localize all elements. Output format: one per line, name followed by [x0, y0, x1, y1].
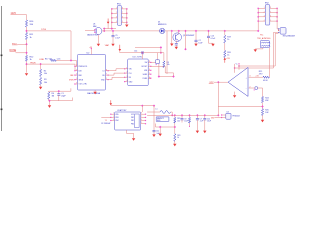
power arrow into rail: [119, 45, 121, 50]
ground tap on low rail: [159, 127, 161, 134]
resistor R4: [48, 92, 50, 99]
series element on minus input: [255, 87, 257, 90]
svg-text:C11: C11: [156, 130, 159, 132]
inductor L1: [160, 111, 171, 114]
capacitor C11: [153, 129, 156, 131]
U3 right pin PB1: [141, 120, 146, 122]
svg-text:R3: R3: [44, 79, 46, 81]
U2 left pin 2 PWRGOOD: [75, 65, 78, 67]
power arrow into U3 rail: [110, 100, 112, 104]
wire 12V_UNREG horizontal: [27, 30, 72, 32]
low rail wire: [156, 126, 175, 128]
junction cap C9 tap: [181, 114, 183, 116]
choke FL1 body: [260, 41, 269, 48]
capacitor C2: [195, 31, 197, 40]
ground below R25: [261, 120, 264, 123]
wire R22 bottom to low rail: [174, 123, 176, 134]
U1 right pin 6 VFB: [148, 69, 151, 71]
U6 ground stub: [97, 35, 99, 44]
U4 left pins: [222, 114, 226, 116]
resistor R9: [163, 53, 165, 61]
wire lower feedback run: [159, 76, 174, 78]
IC U1 body: [128, 59, 149, 86]
row1 wire to IC U2 pin: [56, 60, 76, 66]
ground RN1 right rail: [125, 25, 128, 28]
svg-text:U4: U4: [226, 112, 228, 114]
svg-text:12V0: 12V0: [41, 29, 47, 31]
U3 right pin PB0: [141, 123, 146, 125]
svg-text:D1: D1: [158, 22, 160, 24]
svg-text:R22: R22: [177, 118, 180, 120]
U1 right pin 5 SGND: [148, 73, 151, 75]
U3 left pin PB3: [111, 116, 115, 118]
U2 left pin 3 LBO: [75, 70, 78, 72]
output feedback junction: [217, 81, 219, 83]
wire low rail up to output rail: [155, 124, 157, 128]
svg-text:R21: R21: [259, 71, 262, 73]
svg-text:C9: C9: [184, 118, 186, 120]
svg-text:MBR0520: MBR0520: [158, 24, 166, 26]
gate pull wire with ground: [171, 31, 173, 44]
wire rail upper branch: [135, 47, 161, 52]
RN2 right rail: [276, 8, 278, 29]
svg-text:RN2: RN2: [265, 3, 269, 5]
U1 left pin 2 ITH: [125, 72, 128, 74]
svg-text:PGO: PGO: [12, 43, 17, 45]
op-amp power pin top: [234, 64, 236, 73]
choke left pin to ground: [255, 48, 263, 49]
svg-text:C13: C13: [211, 35, 214, 37]
sub rail wire y28.6: [104, 28, 116, 30]
minus input wire: [249, 87, 263, 89]
IC U3 body: [115, 112, 141, 130]
junction op-amp power a: [234, 67, 236, 69]
svg-text:10uF: 10uF: [207, 121, 211, 123]
svg-text:C7: C7: [200, 118, 202, 120]
diode D1: [160, 28, 165, 33]
svg-text:C1: C1: [61, 93, 63, 95]
junction main bus left end: [103, 30, 105, 32]
svg-text:C5: C5: [115, 35, 117, 37]
U1 right pin 7 BOOST: [148, 65, 151, 67]
junction small resistor tap: [188, 114, 190, 116]
ground divider: [49, 101, 51, 106]
junction low rail: [174, 126, 176, 128]
U1 left pin 3 FB: [125, 76, 128, 78]
junction at rail DONE: [25, 52, 27, 54]
wire from 12V0 label to R16: [17, 15, 27, 20]
wire bus to R19: [224, 31, 226, 35]
resistor R11: [25, 33, 27, 40]
svg-text:1M: 1M: [52, 95, 55, 97]
U3 top rail wire: [111, 105, 154, 107]
RN2 pin pair row: [258, 16, 265, 18]
row2 wire from rail to IC U2: [27, 64, 76, 71]
U1 right wire SW net: [151, 62, 159, 76]
SW1 second return wire: [239, 33, 278, 66]
capacitor C5 on bus: [112, 31, 114, 35]
resistor R26 small: [189, 115, 191, 117]
resistor R19: [224, 35, 226, 43]
wire down to row1 at x71: [70, 31, 72, 61]
junction rail to VPP node: [217, 114, 219, 116]
wire R25 to ground: [262, 115, 264, 119]
U1 right pin 8 SW: [148, 61, 151, 63]
svg-text:RN1: RN1: [117, 3, 121, 5]
svg-text:R25: R25: [265, 110, 268, 112]
U1 to U2 wire 2: [108, 73, 125, 75]
RN1 left rail: [111, 9, 113, 29]
choke right pin wire down to R21: [268, 48, 270, 77]
svg-text:32.768KHZ: 32.768KHZ: [101, 123, 111, 125]
U2 right pin 1 GND: [106, 79, 109, 81]
svg-text:.1uF: .1uF: [200, 121, 203, 123]
resistor R3: [40, 78, 42, 86]
resistor R16: [25, 20, 27, 27]
junction bus right end: [257, 30, 259, 32]
RN1 right rail: [126, 9, 128, 24]
SW1 contact red mark: [278, 30, 279, 31]
junction row2 tap: [25, 63, 27, 65]
U1 left pin 1 VIN: [125, 68, 128, 70]
junction U3 rail a: [141, 104, 143, 106]
SW1 return wire down left: [235, 32, 279, 68]
SW1 contacts: [278, 28, 280, 29]
wire inductor to rail merge: [171, 112, 173, 115]
U3 right pin PB2: [141, 116, 146, 118]
junction cap C7 tap: [196, 114, 198, 116]
svg-text:U6: U6: [93, 24, 95, 26]
power rail VBAT horizontal: [120, 52, 160, 54]
capacitor C6 under Q1: [175, 43, 178, 45]
svg-text:1k: 1k: [177, 137, 179, 139]
U2 right pin 8 LX: [106, 70, 109, 72]
U1 left pin 4 GND: [125, 81, 128, 83]
output rail wire: [147, 114, 218, 116]
RN1 pin pair row: [112, 8, 118, 10]
U2 left pin 6 OUT_CTRL: [75, 83, 78, 85]
op-amp power pin top 2: [238, 64, 240, 70]
svg-text:R19: R19: [227, 37, 230, 39]
capacitor C13: [208, 31, 210, 36]
junction rail R22 tap: [174, 114, 176, 116]
svg-text:10k: 10k: [44, 73, 47, 75]
U1 right wire BOOST net: [151, 66, 174, 76]
main power bus wire: [102, 30, 258, 32]
svg-text:10uF: 10uF: [184, 121, 188, 123]
divider tap junction: [224, 30, 226, 32]
U1 right pin 9 PGND: [148, 77, 151, 79]
ground left rail: [25, 73, 28, 76]
crystal Y1 wire: [101, 116, 111, 118]
U2 left pin 5 SHDN: [75, 79, 78, 81]
capacitor C1: [58, 91, 60, 94]
resistor R20: [224, 51, 226, 58]
bus right end rises to RN2: [257, 8, 259, 31]
junction feedback b: [172, 75, 174, 77]
svg-text:Y1: Y1: [105, 120, 107, 122]
svg-text:FL1: FL1: [260, 35, 263, 37]
wire U3 pin to inductor: [147, 111, 160, 113]
svg-text:10k: 10k: [44, 82, 47, 84]
sheet border left edge: [1, 6, 3, 131]
part label box below inductor: [156, 117, 169, 122]
ground below R3: [40, 85, 42, 87]
svg-text:5V0: 5V0: [211, 117, 214, 119]
bottom wire of divider: [49, 98, 73, 101]
feedback wire down and right: [218, 82, 262, 106]
Q1 source wire down: [175, 41, 177, 44]
junction sub rail 1: [103, 27, 105, 29]
wire rail up to feedback node: [217, 107, 219, 116]
resistor R2: [40, 69, 42, 76]
junction rail branch: [160, 46, 162, 48]
svg-text:R2: R2: [44, 70, 46, 72]
op-amp output wire: [214, 81, 228, 83]
svg-text:U1 LT1790: U1 LT1790: [133, 56, 144, 58]
junction row2 divider tap: [39, 63, 41, 65]
junction rail x160: [160, 51, 162, 53]
svg-text:R4: R4: [52, 93, 54, 95]
svg-text:PBUS: PBUS: [30, 62, 36, 64]
ground below R23: [174, 141, 176, 144]
Q1 drain wire to bus: [178, 31, 180, 34]
svg-text:49.9K: 49.9K: [263, 80, 268, 82]
svg-text:1k: 1k: [227, 39, 229, 41]
switch SW1 body: [280, 28, 286, 34]
U3 ground pin: [127, 130, 134, 138]
junction cap C12 tap: [204, 114, 206, 116]
svg-text:49.9: 49.9: [259, 73, 263, 75]
svg-text:C12: C12: [207, 118, 210, 120]
svg-text:C2: C2: [198, 40, 200, 42]
capacitor C9: [181, 115, 183, 118]
charge pump U4 body: [226, 113, 231, 119]
wire rail to switch: [277, 28, 278, 30]
svg-text:R20: R20: [227, 52, 230, 54]
wire R21 to op-amp plus input: [249, 76, 263, 78]
op-amp power pin bottom with ground: [234, 92, 236, 96]
resistor R23: [174, 134, 176, 142]
resistor network RN2 body: [265, 5, 270, 25]
wire tap down to R2: [40, 64, 42, 69]
small box component below rail: [157, 53, 159, 60]
svg-text:C14: C14: [134, 51, 137, 53]
current sense amp U6 circle: [95, 28, 102, 35]
resistor R24: [261, 97, 263, 103]
resistor R17 horizontal: [51, 59, 57, 61]
svg-text:L1: L1: [156, 108, 158, 110]
wire rail down to C11: [153, 106, 155, 131]
svg-text:VPP: VPP: [209, 82, 214, 84]
feedback divider junction: [261, 105, 263, 107]
RN1 pin pair row: [112, 21, 118, 23]
U3 right pin VCC: [141, 113, 146, 115]
resistor R21: [263, 76, 269, 78]
U6 input pins: [85, 29, 95, 31]
wire rail into U3 top: [141, 106, 143, 112]
wire R24 to junction: [262, 103, 264, 109]
U1 top power wire: [141, 53, 143, 59]
RN1 pin pair row: [112, 12, 118, 14]
junction op-amp power b: [238, 65, 240, 67]
U1 to U2 wire 1: [108, 69, 125, 71]
U2 right pin 7 FB: [106, 74, 109, 76]
junction U3 rail b: [153, 104, 155, 106]
wire top of divider R4: [49, 88, 71, 92]
junction sub rail 2: [111, 27, 113, 29]
resistor R22: [174, 115, 176, 117]
wire DONE label to rail: [16, 52, 27, 54]
op-amp U5 triangle: [228, 67, 248, 96]
junction feedback a: [158, 75, 160, 77]
junction row1 x71: [70, 59, 72, 61]
svg-text:10k: 10k: [177, 120, 180, 122]
U1 to U2 wire 3: [108, 77, 125, 79]
resistor network RN1 body: [117, 6, 121, 26]
capacitor C7: [196, 115, 198, 118]
capacitor C12: [204, 115, 206, 118]
U2 top power stub: [90, 49, 92, 55]
op IC U2 body: [78, 55, 106, 91]
svg-text:Q1 FDN340P: Q1 FDN340P: [183, 35, 195, 37]
svg-text:R24: R24: [265, 97, 268, 99]
resistor R25: [261, 109, 263, 116]
wire R16 to junction: [26, 27, 28, 33]
RN2 pin pair row: [258, 7, 265, 9]
wire PGOOD to rail: [18, 43, 27, 45]
wire minus to R24: [262, 88, 264, 97]
wire sub to main bus: [103, 29, 105, 31]
transistor Q1 body: [173, 33, 182, 42]
wire R19 to R20: [224, 43, 226, 50]
U3 left pin PB5: [111, 113, 115, 115]
RN2 pin pair row: [258, 20, 265, 22]
U3 left pin PB4: [111, 120, 115, 122]
long drop wire x185.5: [185, 31, 187, 49]
svg-text:LINE: LINE: [39, 59, 44, 61]
power arrow RN1 left: [107, 19, 109, 23]
U2 left pin 4 REF: [75, 74, 78, 76]
wire R12 to ground: [26, 61, 28, 72]
long vertical net wire x167: [166, 31, 168, 74]
svg-text:R23: R23: [177, 135, 180, 137]
svg-text:1k: 1k: [227, 54, 229, 56]
junction inductor merge: [171, 114, 173, 116]
power arrow +5V below divider: [224, 59, 226, 63]
resistor R12: [25, 55, 27, 61]
node 12V_UNREG junction: [25, 30, 27, 32]
U2 ground pin: [94, 90, 96, 92]
junction node A: [25, 43, 27, 45]
wire R11 to lower junction: [26, 40, 28, 56]
RN2 pin pair row: [258, 12, 265, 14]
RN1 pin pair row: [112, 17, 118, 19]
junction divider: [58, 90, 60, 92]
